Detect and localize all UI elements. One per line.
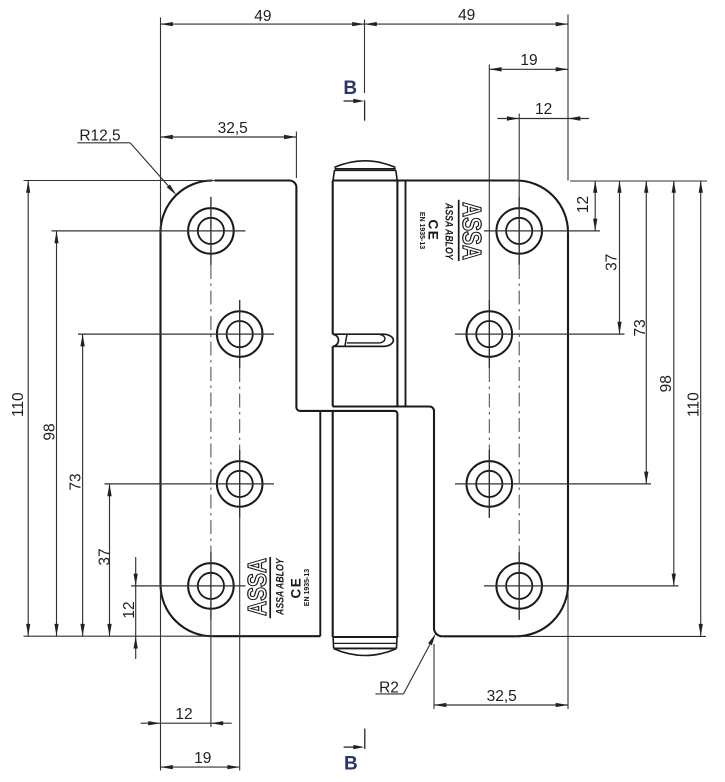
extension line hole row3 leftward bbox=[105, 483, 275, 485]
dimension line 110 right bbox=[700, 181, 702, 637]
hole 7 vertical centerline tick bbox=[488, 450, 490, 518]
svg-text:19: 19 bbox=[194, 750, 211, 767]
svg-text:98: 98 bbox=[658, 375, 675, 392]
lower knuckle left roll tangent line bbox=[319, 412, 321, 636]
screw hole 5 bore circle bbox=[506, 218, 532, 244]
upper knuckle right roll tangent line bbox=[405, 181, 407, 406]
dimension line 12 bottom (outside arrows) bbox=[141, 722, 232, 724]
dimension line 37 left bbox=[109, 484, 111, 636]
svg-text:R12,5: R12,5 bbox=[79, 127, 120, 144]
extension line top edge rightward bbox=[570, 180, 707, 182]
lower knuckle left edge bbox=[332, 411, 334, 637]
dimension line 110 left bbox=[27, 181, 29, 637]
hole 8 vertical centerline tick bbox=[518, 552, 520, 620]
dimension line 12 right bbox=[594, 181, 596, 231]
right leaf bottom-right corner arc R12,5 bbox=[516, 584, 568, 636]
screw hole 1 countersink circle bbox=[188, 208, 234, 254]
svg-text:12: 12 bbox=[121, 601, 138, 618]
svg-text:ASSA: ASSA bbox=[242, 558, 272, 616]
leader R2 bbox=[375, 693, 403, 695]
svg-text:ASSA ABLOY: ASSA ABLOY bbox=[274, 557, 286, 616]
arrowheads 12 bottom bbox=[148, 721, 160, 725]
arrowheads 49 left span bbox=[161, 22, 173, 26]
lower knuckle bottom edge bbox=[333, 636, 398, 638]
hole column centerline right col2 (dash-dot) bbox=[488, 368, 490, 450]
screw hole 5 countersink circle bbox=[496, 208, 542, 254]
right leaf top-right corner arc R12,5 bbox=[516, 181, 568, 233]
pin slot outer right cap bbox=[383, 334, 393, 346]
arrowheads 98 left bbox=[54, 231, 58, 243]
extension line hole row4 leftward bbox=[131, 585, 246, 587]
upper knuckle left edge above slot bbox=[332, 181, 334, 335]
dimension line 73 right bbox=[645, 181, 647, 484]
screw hole 6 bore circle bbox=[476, 321, 502, 347]
arrowheads 32,5 top left bbox=[161, 135, 173, 139]
arrowheads 19 top right bbox=[489, 67, 501, 71]
ASSA ABLOY stamp on right leaf (rotated 180) bbox=[418, 200, 487, 261]
screw hole 8 bore circle bbox=[506, 573, 532, 599]
dimension line 19 top right bbox=[489, 68, 568, 70]
screw hole 2 countersink circle bbox=[217, 311, 263, 357]
arrowheads 12 left bbox=[134, 574, 138, 586]
svg-text:B: B bbox=[343, 78, 357, 99]
extension line left plate edge above (to 49 dim) bbox=[160, 18, 162, 233]
extension line hole row2 leftward bbox=[78, 333, 274, 335]
svg-text:12: 12 bbox=[575, 196, 592, 213]
pin end slant tick bbox=[345, 335, 347, 347]
dimension line 12 top right (outside arrows) bbox=[497, 118, 589, 120]
dimension line 37 right bbox=[619, 181, 621, 335]
section marker B bottom arrow bbox=[344, 746, 358, 748]
arrowheads 110 left bbox=[26, 181, 30, 193]
left leaf top-left corner arc R12,5 bbox=[161, 180, 213, 232]
pin bottom cap line 1 bbox=[333, 642, 397, 644]
screw hole 8 countersink circle bbox=[496, 563, 542, 609]
hole column centerline left col2 (dash-dot) bbox=[239, 368, 241, 450]
extension line hole row2 rightward bbox=[455, 333, 625, 335]
screw hole 2 bore circle bbox=[227, 321, 253, 347]
dimension line 19 bottom bbox=[161, 766, 240, 768]
upper knuckle left edge below slot bbox=[332, 346, 334, 406]
pin top cap line 1 bbox=[335, 168, 396, 170]
left leaf left edge bbox=[159, 232, 161, 584]
right leaf left cutout edge with R2 corner bbox=[434, 411, 442, 636]
right leaf bottom edge bbox=[442, 635, 516, 637]
pin top cap sides bbox=[333, 170, 397, 180]
arrowheads 19 bottom bbox=[161, 765, 173, 769]
hole 1 vertical centerline tick bbox=[210, 197, 212, 265]
svg-text:19: 19 bbox=[520, 52, 537, 69]
extension line right plate edge below (32,5) bbox=[567, 592, 569, 709]
pin top cap line 2 bbox=[335, 169, 396, 171]
svg-text:B: B bbox=[344, 753, 358, 774]
dimension line 98 right bbox=[673, 181, 675, 586]
arrowheads 73 left bbox=[80, 334, 84, 346]
svg-text:37: 37 bbox=[604, 254, 621, 271]
left hinge leaf top edge with small corner bbox=[214, 181, 300, 411]
arrowheads 110 right bbox=[699, 181, 703, 193]
lower knuckle top edge bbox=[300, 411, 397, 414]
dimension line 32,5 bottom right bbox=[434, 704, 568, 706]
arrowheads 49 right span bbox=[365, 22, 377, 26]
svg-text:ASSA: ASSA bbox=[457, 202, 487, 260]
screw hole 6 countersink circle bbox=[467, 311, 513, 357]
extension line hole row4 rightward bbox=[484, 585, 679, 587]
screw hole 3 bore circle bbox=[227, 471, 253, 497]
arrowheads 12 right bbox=[593, 181, 597, 193]
extension line hole row1 leftward bbox=[52, 230, 246, 232]
extension line bottom edge leftward bbox=[24, 635, 213, 637]
hole 5 vertical centerline tick bbox=[518, 197, 520, 265]
pin slot left notch arc bbox=[333, 334, 339, 346]
extension line right col1 above (12 dim) bbox=[518, 114, 520, 198]
svg-text:73: 73 bbox=[68, 473, 85, 490]
hole 4 vertical centerline tick bbox=[210, 552, 212, 620]
extension line top edge leftward (110 dim) bbox=[24, 180, 215, 182]
left leaf bottom edge bbox=[212, 635, 320, 637]
right leaf right edge bbox=[567, 232, 569, 584]
screw hole 4 countersink circle bbox=[188, 563, 234, 609]
pin inner right cap bbox=[379, 334, 385, 343]
arrowheads 32,5 bottom right bbox=[434, 703, 446, 707]
svg-text:110: 110 bbox=[686, 392, 703, 417]
svg-text:49: 49 bbox=[458, 7, 475, 24]
ASSA ABLOY stamp on left leaf bbox=[242, 557, 311, 618]
leader R12,5 bbox=[77, 142, 130, 144]
right leaf top edge (through knuckle cap base) bbox=[333, 179, 517, 181]
pin bottom cap line 2 bbox=[334, 647, 397, 649]
arrowheads 73 right bbox=[644, 181, 648, 193]
arrowheads 12 top right bbox=[507, 116, 519, 120]
extension line hole row3 rightward bbox=[455, 483, 651, 485]
extension line left col1 below bbox=[210, 620, 212, 727]
upper knuckle right edge bbox=[396, 181, 398, 407]
pin inner line bbox=[347, 342, 380, 344]
lower knuckle right edge bbox=[396, 414, 398, 637]
pin bottom dome bbox=[334, 649, 397, 656]
screw hole 7 countersink circle bbox=[467, 461, 513, 507]
svg-text:CE: CE bbox=[289, 577, 304, 599]
hole column centerline left col1 (dash-dot) bbox=[210, 265, 212, 552]
arrowheads 37 left bbox=[107, 484, 111, 496]
logo divider rule bbox=[269, 557, 271, 618]
extension line left col2 below bbox=[239, 518, 241, 771]
svg-text:37: 37 bbox=[97, 548, 114, 565]
arrowheads 98 right bbox=[672, 181, 676, 193]
svg-text:EN 1935-13: EN 1935-13 bbox=[304, 569, 311, 606]
hole 6 vertical centerline tick bbox=[488, 300, 490, 368]
svg-text:32,5: 32,5 bbox=[487, 688, 517, 705]
logo divider rule bbox=[458, 200, 460, 261]
screw hole 7 bore circle bbox=[476, 471, 502, 497]
extension line bottom edge rightward bbox=[520, 635, 706, 637]
extension line right plate edge above bbox=[567, 15, 569, 181]
svg-text:CE: CE bbox=[425, 220, 440, 242]
screw hole 3 countersink circle bbox=[217, 461, 263, 507]
screw hole 1 bore circle bbox=[198, 218, 224, 244]
extension line hole row1 rightward bbox=[484, 230, 600, 232]
left leaf bottom-left corner arc R12,5 bbox=[161, 584, 213, 636]
svg-text:12: 12 bbox=[535, 101, 552, 118]
extension line hinge center (between 49 dims) bbox=[364, 20, 366, 94]
upper knuckle bottom edge with corner into right leaf cutout bbox=[333, 407, 434, 412]
dimension line 49+49 top bbox=[161, 23, 569, 25]
svg-text:12: 12 bbox=[175, 706, 192, 723]
svg-text:49: 49 bbox=[254, 8, 271, 25]
svg-text:98: 98 bbox=[42, 423, 59, 440]
dimension line 32,5 top left bbox=[161, 136, 297, 138]
extension line right cutout edge below (32,5) bbox=[433, 644, 435, 709]
dimension line 12 left (outside arrows) bbox=[135, 557, 137, 659]
svg-text:R2: R2 bbox=[379, 680, 399, 697]
section marker B top arrow bbox=[344, 100, 359, 102]
svg-text:32,5: 32,5 bbox=[218, 120, 248, 137]
svg-text:73: 73 bbox=[632, 319, 649, 336]
svg-text:EN 1935-13: EN 1935-13 bbox=[418, 212, 425, 249]
svg-text:ASSA ABLOY: ASSA ABLOY bbox=[443, 202, 455, 261]
hole 2 vertical centerline tick bbox=[239, 300, 241, 368]
pin slot bottom line bbox=[333, 345, 383, 347]
pin slot top line bbox=[333, 333, 383, 335]
pin bottom cap sides bbox=[333, 637, 397, 648]
dimension line 73 left bbox=[82, 334, 84, 636]
arrowheads 37 right bbox=[617, 181, 621, 193]
extension line left plate edge below bbox=[160, 590, 162, 771]
svg-text:110: 110 bbox=[10, 392, 27, 417]
dimension line 98 left bbox=[56, 231, 58, 636]
hole 3 vertical centerline tick bbox=[239, 450, 241, 518]
extension line right col2 above (19 dim) bbox=[488, 65, 490, 301]
extension line left cutout edge above (32,5 dim) bbox=[295, 132, 297, 179]
screw hole 4 bore circle bbox=[198, 573, 224, 599]
pin top dome bbox=[334, 161, 395, 168]
hole column centerline right col1 (dash-dot) bbox=[518, 265, 520, 552]
